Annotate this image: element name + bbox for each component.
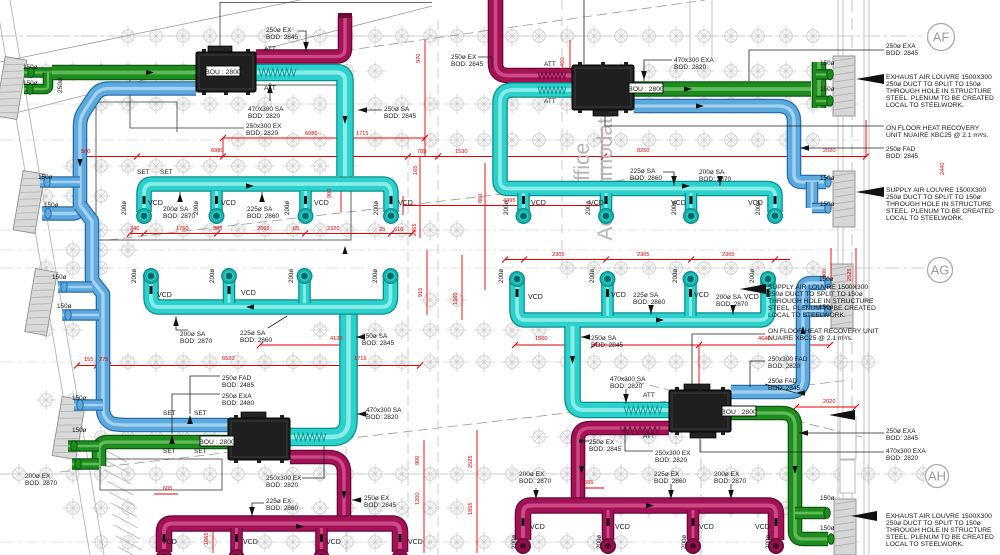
- svg-text:BOD: 2845: BOD: 2845: [768, 385, 801, 392]
- svg-text:200ø: 200ø: [373, 201, 380, 215]
- svg-text:250ø SA: 250ø SA: [591, 335, 617, 342]
- svg-text:6880: 6880: [211, 148, 223, 154]
- louvre note arrows: [740, 74, 884, 521]
- green 150 stub AH upper: [795, 507, 826, 520]
- AHU unit 4 (bottom-right) BOU:2800: [669, 384, 731, 438]
- svg-text:BOD: 2870: BOD: 2870: [519, 478, 552, 485]
- cyan branch main A: [144, 184, 391, 212]
- riser diffuser C4 (cyan): [383, 269, 397, 283]
- svg-text:250ø EX: 250ø EX: [589, 439, 615, 446]
- svg-text:200ø EX: 200ø EX: [519, 471, 545, 478]
- note exhaust louvre AH: [886, 513, 994, 548]
- magenta exhaust from AHU3 down: [290, 457, 344, 520]
- svg-text:1400: 1400: [560, 58, 566, 70]
- riser diffuser C1 (cyan): [144, 269, 158, 283]
- svg-text:THROUGH HOLE IN STRUCTURE: THROUGH HOLE IN STRUCTURE: [886, 201, 992, 208]
- svg-text:200ø: 200ø: [121, 201, 128, 215]
- red vertical dimensions: [77, 40, 866, 553]
- svg-text:250ø: 250ø: [57, 78, 64, 93]
- grid bubble AF: [928, 24, 955, 51]
- svg-text:BOD: 2860: BOD: 2860: [630, 175, 663, 182]
- svg-text:VCD: VCD: [611, 292, 626, 299]
- label 250 EX left branch: [364, 495, 397, 509]
- svg-text:200ø: 200ø: [284, 201, 291, 215]
- svg-text:200ø: 200ø: [288, 269, 295, 283]
- svg-text:VCD: VCD: [408, 539, 423, 546]
- svg-text:200ø SA: 200ø SA: [716, 294, 742, 301]
- cyan riser C2: [223, 276, 236, 303]
- svg-text:1530: 1530: [455, 149, 467, 155]
- svg-text:VCD: VCD: [744, 294, 759, 301]
- svg-text:150ø: 150ø: [23, 64, 38, 71]
- cyan drop B3: [685, 193, 698, 211]
- svg-text:LOCAL TO STEELWORK.: LOCAL TO STEELWORK.: [768, 312, 846, 319]
- svg-text:AH: AH: [928, 469, 946, 484]
- svg-text:250ø DUCT TO SPLIT TO 150ø: 250ø DUCT TO SPLIT TO 150ø: [768, 291, 863, 298]
- svg-text:150ø: 150ø: [72, 427, 87, 434]
- label note 250 EXA top: [886, 43, 919, 57]
- label 225 SA main A: [247, 206, 280, 220]
- svg-text:2065: 2065: [257, 226, 269, 232]
- label 250x300 EX AHU4: [655, 450, 691, 464]
- svg-text:150ø: 150ø: [819, 276, 834, 283]
- left louvre 1 (exhaust air, top): [0, 57, 27, 120]
- label note 250 FAD AG: [768, 378, 801, 392]
- cyan riser C3: [298, 276, 311, 303]
- right louvre supply 2 (AG): [831, 264, 853, 328]
- svg-text:250ø FAD: 250ø FAD: [222, 375, 252, 382]
- svg-text:THROUGH HOLE IN STRUCTURE: THROUGH HOLE IN STRUCTURE: [886, 527, 992, 534]
- svg-text:2020: 2020: [823, 399, 835, 405]
- svg-text:SET: SET: [163, 448, 176, 455]
- green exhaust from AHU3 to left louvre: [99, 442, 228, 466]
- svg-text:800: 800: [478, 194, 484, 203]
- label note 250 FAD top: [886, 146, 919, 160]
- svg-text:150ø: 150ø: [820, 495, 835, 502]
- left structural wall: [0, 0, 104, 555]
- svg-text:VCD: VCD: [241, 290, 256, 297]
- diagonal structure lines: [0, 0, 862, 472]
- svg-text:BOD: 2845: BOD: 2845: [451, 61, 484, 68]
- label 200 EX row3: [714, 471, 747, 485]
- svg-text:BOD: 2820: BOD: 2820: [674, 64, 707, 71]
- svg-text:VCD: VCD: [694, 292, 709, 299]
- green louvre manifold AF: [812, 62, 827, 108]
- svg-text:250ø EXA: 250ø EXA: [886, 43, 916, 50]
- svg-text:150ø: 150ø: [820, 60, 835, 67]
- svg-text:1760: 1760: [176, 226, 188, 232]
- label 200 SA main B: [699, 169, 732, 183]
- blue 150 stub mid2: [62, 309, 99, 321]
- magenta drop L2: [230, 528, 243, 552]
- cyan supply from AHU1 right: [256, 73, 345, 177]
- right louvre exhaust AF: [833, 56, 855, 116]
- svg-text:970: 970: [416, 54, 422, 63]
- svg-text:BOD: 2820: BOD: 2820: [266, 482, 299, 489]
- svg-text:BOD: 2860: BOD: 2860: [240, 337, 273, 344]
- magenta drop L3: [315, 528, 328, 552]
- svg-text:2020: 2020: [823, 148, 835, 154]
- green supply main into AHU1: [52, 65, 196, 81]
- svg-text:ATT: ATT: [264, 46, 276, 53]
- flow arrows on ducts: [77, 70, 805, 529]
- svg-text:ON FLOOR HEAT RECOVERY UNIT: ON FLOOR HEAT RECOVERY UNIT: [768, 328, 879, 335]
- svg-text:EXHAUST AIR LOUVRE 1500X300: EXHAUST AIR LOUVRE 1500X300: [886, 513, 992, 520]
- cyan riser D2: [601, 279, 614, 316]
- label 250 SA AHU4: [591, 335, 624, 349]
- svg-text:200ø SA: 200ø SA: [699, 169, 725, 176]
- label 250 EX top-left: [266, 27, 299, 41]
- right louvre exhaust AH: [834, 499, 856, 555]
- svg-text:610: 610: [394, 227, 403, 233]
- green 150 stub lower left: [24, 73, 48, 90]
- svg-text:200ø: 200ø: [671, 201, 678, 215]
- note heat recovery AG: [768, 328, 879, 342]
- svg-text:605: 605: [584, 480, 593, 486]
- svg-text:470x300 EXA: 470x300 EXA: [886, 448, 926, 455]
- svg-text:BOD: 2860: BOD: 2860: [654, 478, 687, 485]
- svg-text:BOD: 2845: BOD: 2845: [266, 34, 299, 41]
- svg-text:150ø: 150ø: [52, 274, 67, 281]
- svg-text:250x300 EX: 250x300 EX: [266, 475, 302, 482]
- svg-text:250ø EX: 250ø EX: [364, 495, 390, 502]
- grid bubble centerlines AF AG AH: [0, 36, 924, 474]
- svg-text:BOD: 2845: BOD: 2845: [591, 342, 624, 349]
- svg-text:250ø EX: 250ø EX: [451, 54, 477, 61]
- right louvre supply 1: [833, 171, 855, 227]
- cyan drop A2: [210, 191, 223, 211]
- cyan branch main D: [517, 279, 768, 320]
- attenuator on magenta AHU2: [538, 72, 566, 78]
- blue 150 stub upper: [40, 176, 80, 188]
- svg-text:200ø: 200ø: [596, 535, 603, 549]
- svg-text:1065: 1065: [204, 533, 210, 545]
- exhaust diffuser R1 (magenta): [516, 539, 530, 553]
- svg-text:BOD: 2860: BOD: 2860: [633, 299, 666, 306]
- exhaust diffuser R2 (magenta): [601, 539, 615, 553]
- attenuator on cyan AHU1: [259, 69, 296, 77]
- svg-text:200ø: 200ø: [209, 269, 216, 283]
- svg-text:BOD: 2485: BOD: 2485: [222, 382, 255, 389]
- svg-text:6085: 6085: [305, 131, 317, 137]
- magenta drop R2: [602, 510, 615, 540]
- svg-text:470x300 SA: 470x300 SA: [248, 106, 284, 113]
- svg-text:LOCAL TO STEELWORK.: LOCAL TO STEELWORK.: [886, 541, 964, 548]
- blue 150 stub mid1: [58, 281, 92, 293]
- label 250 EX AHU2: [451, 54, 484, 68]
- svg-text:BOD: 2870: BOD: 2870: [714, 478, 747, 485]
- AHU unit 3 (bottom-left) BOU:2800: [228, 412, 290, 463]
- svg-text:ATT: ATT: [544, 98, 556, 105]
- label 250 SA right of AHU1: [384, 106, 417, 120]
- svg-text:1360: 1360: [453, 293, 459, 305]
- svg-text:250x300 FAD: 250x300 FAD: [768, 356, 808, 363]
- svg-text:2440: 2440: [940, 163, 946, 175]
- svg-text:BOD: 2870: BOD: 2870: [25, 480, 58, 487]
- green 150 stub AF upper: [816, 69, 829, 80]
- svg-text:VCD: VCD: [221, 200, 236, 207]
- svg-text:AF: AF: [933, 30, 950, 45]
- svg-text:STEEL. PLENUM TO BE CREATED: STEEL. PLENUM TO BE CREATED: [886, 534, 994, 541]
- note supply louvre AG: [768, 284, 876, 319]
- svg-text:200ø: 200ø: [749, 269, 756, 283]
- svg-text:BOD: 2870: BOD: 2870: [716, 301, 749, 308]
- svg-text:605: 605: [163, 486, 172, 492]
- svg-text:STEEL. PLENUM TO BE CREATED: STEEL. PLENUM TO BE CREATED: [768, 305, 876, 312]
- label 250 FAD AHU3: [222, 375, 255, 389]
- svg-text:200ø: 200ø: [585, 201, 592, 215]
- label 200 EX row1: [519, 471, 552, 485]
- label 470x300 SA AHU1: [248, 106, 284, 120]
- svg-text:VCD: VCD: [148, 200, 163, 207]
- svg-text:200ø: 200ø: [765, 535, 772, 549]
- svg-text:275: 275: [99, 357, 108, 363]
- svg-text:BOU : 2800: BOU : 2800: [721, 409, 757, 416]
- magenta branch bottom left: [164, 524, 400, 553]
- grid bubble AH: [926, 465, 949, 488]
- magenta branch bottom right: [523, 506, 776, 541]
- cyan drop B2: [600, 193, 613, 211]
- svg-text:ATT: ATT: [643, 392, 655, 399]
- svg-text:250ø SA: 250ø SA: [362, 333, 388, 340]
- blue 150 stub AG lower: [803, 305, 826, 317]
- blue FAD from AHU4 to AG louvre: [731, 283, 826, 392]
- room label Office Accommodation: [571, 113, 617, 240]
- attenuator on cyan AHU3: [294, 433, 326, 441]
- svg-text:1715: 1715: [354, 356, 366, 362]
- attenuator on cyan AHU2: [538, 86, 566, 94]
- svg-text:250x300 EX: 250x300 EX: [655, 450, 691, 457]
- svg-text:915: 915: [418, 288, 424, 297]
- svg-text:2525: 2525: [847, 269, 853, 281]
- svg-text:THROUGH HOLE IN STRUCTURE: THROUGH HOLE IN STRUCTURE: [886, 88, 992, 95]
- cyan branch main C: [151, 275, 391, 307]
- AHU unit 4 (bottom-right) BOU:2800 label box: [721, 406, 757, 416]
- svg-text:225ø EX: 225ø EX: [654, 471, 680, 478]
- svg-text:BOD: 2845: BOD: 2845: [886, 153, 919, 160]
- svg-text:150ø: 150ø: [820, 201, 835, 208]
- svg-text:BOU : 2800: BOU : 2800: [199, 439, 235, 446]
- diffuser A1 (cyan): [137, 209, 151, 223]
- magenta drop R3: [687, 510, 700, 540]
- svg-text:BOD: 2870: BOD: 2870: [163, 213, 196, 220]
- svg-text:SET: SET: [194, 448, 207, 455]
- svg-text:150ø: 150ø: [820, 175, 835, 182]
- svg-text:225ø SA: 225ø SA: [633, 292, 659, 299]
- svg-text:25: 25: [379, 227, 385, 233]
- svg-text:BOD: 2845: BOD: 2845: [384, 113, 417, 120]
- svg-text:BOD: 2870: BOD: 2870: [699, 176, 732, 183]
- svg-text:6520: 6520: [222, 356, 234, 362]
- wall hatch bottom-left: [101, 448, 144, 555]
- svg-text:200ø EX: 200ø EX: [714, 471, 740, 478]
- svg-text:150ø: 150ø: [38, 174, 53, 181]
- svg-text:200ø: 200ø: [672, 269, 679, 283]
- label 200 SA main D: [716, 294, 749, 308]
- svg-text:AG: AG: [931, 263, 950, 278]
- svg-text:150ø: 150ø: [72, 395, 87, 402]
- label 200 EX row left: [25, 473, 58, 487]
- AHU unit 2 (top-center) BOU:2800 label box: [628, 83, 664, 93]
- svg-text:200ø: 200ø: [372, 269, 379, 283]
- svg-text:65: 65: [293, 226, 299, 232]
- riser diffuser D2 (cyan): [600, 272, 614, 286]
- cyan supply from AHU2 down to main B: [500, 90, 775, 212]
- svg-text:SUPPLY AIR LOUVRE 1500X300: SUPPLY AIR LOUVRE 1500X300: [768, 284, 868, 291]
- svg-text:UNIT NUAIRE XBC25 @ 2.1 m³/s.: UNIT NUAIRE XBC25 @ 2.1 m³/s.: [886, 132, 988, 139]
- svg-text:THROUGH HOLE IN STRUCTURE: THROUGH HOLE IN STRUCTURE: [768, 298, 874, 305]
- svg-text:ATT: ATT: [643, 433, 655, 440]
- cyan supply into AHU4: [573, 326, 670, 410]
- svg-text:2525: 2525: [468, 456, 474, 468]
- svg-text:225ø SA: 225ø SA: [630, 168, 656, 175]
- annotation leader lines: [172, 0, 884, 517]
- svg-text:VCD: VCD: [615, 524, 630, 531]
- svg-text:1200: 1200: [415, 493, 421, 505]
- svg-text:BOD: 2820: BOD: 2820: [655, 457, 688, 464]
- label 470x300 SA AHU4: [610, 376, 646, 390]
- equipment clearance boxes: [95, 2, 432, 490]
- svg-text:VCD: VCD: [157, 292, 172, 299]
- riser diffuser D1 (cyan): [510, 272, 524, 286]
- exhaust diffuser L4 (magenta): [393, 550, 407, 555]
- svg-text:BOD: 2845: BOD: 2845: [589, 446, 622, 453]
- svg-text:470x300 SA: 470x300 SA: [610, 376, 646, 383]
- green 150 stub b2: [72, 458, 99, 470]
- svg-text:900: 900: [415, 456, 421, 465]
- svg-text:200ø: 200ø: [131, 269, 138, 283]
- dimension labels: [81, 54, 946, 545]
- green 150 stub b1: [68, 440, 99, 452]
- svg-text:500: 500: [81, 149, 90, 155]
- svg-text:SET: SET: [194, 410, 207, 417]
- svg-text:200ø: 200ø: [681, 535, 688, 549]
- svg-text:200ø EX: 200ø EX: [25, 473, 51, 480]
- svg-text:VCD: VCD: [243, 539, 258, 546]
- svg-text:900: 900: [327, 189, 333, 198]
- label 470x300 EXA AHU2: [674, 57, 714, 71]
- svg-text:BOD: 2845: BOD: 2845: [886, 435, 919, 442]
- svg-text:BOD: 2820: BOD: 2820: [886, 455, 919, 462]
- diffuser B2 (cyan): [599, 209, 613, 223]
- label 250x300 EX AHU1: [246, 123, 282, 137]
- svg-text:200ø: 200ø: [193, 201, 200, 215]
- svg-text:VCD: VCD: [398, 200, 413, 207]
- label note 250 EXA AH: [886, 428, 919, 442]
- cyan drop B1: [517, 193, 530, 211]
- label 200 SA main C: [180, 331, 213, 345]
- svg-text:200ø: 200ø: [498, 269, 505, 283]
- svg-text:1715: 1715: [356, 131, 368, 137]
- svg-text:ATT: ATT: [544, 61, 556, 68]
- svg-text:2305: 2305: [722, 252, 734, 258]
- diffuser B1 (cyan): [516, 209, 530, 223]
- svg-text:150ø: 150ø: [820, 525, 835, 532]
- svg-text:LOCAL TO STEELWORK.: LOCAL TO STEELWORK.: [886, 102, 964, 109]
- label 250 EX AHU4: [589, 439, 622, 453]
- magenta exhaust from AHU2 up: [496, 0, 573, 76]
- svg-text:1855: 1855: [468, 503, 474, 515]
- riser diffuser C3 (cyan): [297, 269, 311, 283]
- svg-text:165: 165: [413, 166, 419, 175]
- svg-text:VCD: VCD: [162, 539, 177, 546]
- blue 150 stub louvre4: [74, 399, 103, 411]
- note supply louvre top: [886, 187, 994, 222]
- left louvre 3 (fresh air): [25, 269, 57, 336]
- magenta exhaust from AHU4 down: [578, 428, 669, 502]
- blue FAD vertical to AHU3: [80, 205, 228, 425]
- svg-text:150ø: 150ø: [820, 86, 835, 93]
- svg-text:BOU : 2800: BOU : 2800: [205, 69, 241, 76]
- magenta duct end cap: [338, 13, 352, 18]
- exhaust diffuser R3 (magenta): [686, 539, 700, 553]
- cyan supply from AHU3 up: [290, 305, 349, 437]
- vertical structure lines: [346, 0, 562, 555]
- svg-text:785: 785: [417, 149, 426, 155]
- svg-text:BOD: 2845: BOD: 2845: [362, 340, 395, 347]
- svg-text:200ø SA: 200ø SA: [163, 206, 189, 213]
- diffuser B4 (cyan): [768, 209, 782, 223]
- svg-text:250ø DUCT TO SPLIT TO 150ø: 250ø DUCT TO SPLIT TO 150ø: [886, 194, 981, 201]
- svg-text:BOD: 2820: BOD: 2820: [768, 363, 801, 370]
- diffuser A4 (cyan): [384, 209, 398, 223]
- right structural wall: [690, 0, 869, 555]
- dimension chain A: [77, 138, 866, 494]
- svg-text:250ø FAD: 250ø FAD: [768, 378, 798, 385]
- svg-text:340: 340: [130, 226, 139, 232]
- svg-text:STEEL. PLENUM TO BE CREATED: STEEL. PLENUM TO BE CREATED: [886, 95, 994, 102]
- svg-text:150ø: 150ø: [44, 202, 59, 209]
- right wall panel above AH: [840, 417, 856, 493]
- svg-text:150ø: 150ø: [23, 80, 38, 87]
- svg-text:470x300 SA: 470x300 SA: [366, 407, 402, 414]
- magenta exhaust from AHU1 up: [256, 16, 345, 57]
- svg-text:EXHAUST AIR LOUVRE 1500X300: EXHAUST AIR LOUVRE 1500X300: [886, 74, 992, 81]
- svg-text:VCD: VCD: [530, 524, 545, 531]
- green exhaust from AHU4 to AH louvre: [731, 413, 828, 539]
- svg-text:VCD: VCD: [699, 524, 714, 531]
- green 150 stub AF lower: [816, 96, 829, 107]
- blue FAD from AHU2 to supply louvre: [634, 106, 826, 182]
- svg-text:200ø: 200ø: [755, 201, 762, 215]
- svg-text:STEEL. PLENUM TO BE CREATED: STEEL. PLENUM TO BE CREATED: [886, 208, 994, 215]
- svg-text:BOD: 2860: BOD: 2860: [247, 213, 280, 220]
- diffuser B3 (cyan): [684, 209, 698, 223]
- svg-text:BOD: 2820: BOD: 2820: [610, 383, 643, 390]
- label 200 SA main A: [163, 206, 196, 220]
- svg-text:BOD: 2820: BOD: 2820: [248, 113, 281, 120]
- svg-text:4130: 4130: [330, 336, 342, 342]
- label 225 EX left branch: [266, 498, 299, 512]
- svg-text:SET: SET: [137, 169, 150, 176]
- svg-text:200ø SA: 200ø SA: [180, 331, 206, 338]
- svg-text:225ø EX: 225ø EX: [266, 498, 292, 505]
- svg-text:2320: 2320: [327, 226, 339, 232]
- blue FAD duct from AHU1 to left wall: [42, 89, 196, 214]
- svg-text:250ø EX: 250ø EX: [266, 27, 292, 34]
- structural grid centerlines: [0, 36, 860, 542]
- svg-text:VCD: VCD: [531, 200, 546, 207]
- svg-text:BOD: 2845: BOD: 2845: [886, 50, 919, 57]
- label 250 SA main C: [362, 333, 395, 347]
- svg-text:BOD: 2820: BOD: 2820: [246, 130, 279, 137]
- blue manifold connector: [806, 182, 819, 208]
- svg-text:2305: 2305: [637, 252, 649, 258]
- svg-text:470x300 EXA: 470x300 EXA: [674, 57, 714, 64]
- svg-text:BOD: 2860: BOD: 2860: [266, 505, 299, 512]
- svg-text:NUAIRE XBC25 @ 2.1 m³/s.: NUAIRE XBC25 @ 2.1 m³/s.: [768, 335, 853, 342]
- grid bubble AG: [928, 258, 953, 283]
